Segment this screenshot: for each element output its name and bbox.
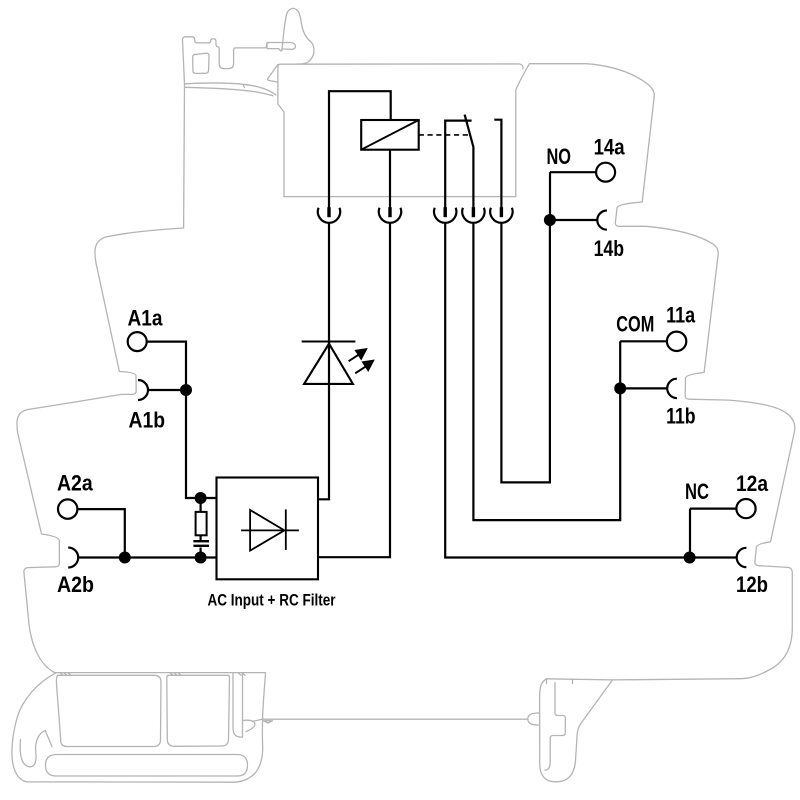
housing tier-1 top edge right segment with seam — [516, 64, 530, 197]
svg-text:AC Input + RC Filter: AC Input + RC Filter — [208, 591, 336, 610]
relay coil K — [361, 120, 419, 150]
svg-text:NC: NC — [685, 479, 709, 504]
wire NC to 12a — [690, 508, 737, 510]
wire COM to 11a — [620, 340, 667, 342]
wire filter box right to LED branch — [318, 223, 329, 500]
wire A1b to junction — [148, 389, 186, 391]
wire capacitor to A2 line — [200, 548, 202, 558]
terminal arc 14b — [597, 211, 607, 230]
terminal arc A2b — [68, 548, 78, 568]
foot pad 1 — [56, 675, 161, 746]
plug 4 — [472, 207, 475, 217]
plug 5 — [500, 207, 503, 217]
black circuit — [77, 91, 736, 557]
wire A2 line — [78, 556, 216, 558]
DIN clip body silhouette — [182, 37, 268, 84]
wire 14b junction to arc — [550, 219, 597, 221]
svg-text:11b: 11b — [666, 403, 696, 428]
switch NO fixed contact — [494, 120, 501, 208]
foot bottom bar — [46, 755, 248, 777]
svg-text:COM: COM — [616, 312, 654, 337]
capacitor C — [193, 541, 209, 546]
wire NO to 14a — [550, 171, 596, 173]
wire NC down — [689, 509, 691, 558]
foot toe claw — [20, 731, 52, 767]
foot hatch ticks — [60, 673, 71, 676]
wire A1a to junction — [147, 342, 186, 390]
svg-text:14a: 14a — [594, 134, 626, 159]
DIN clip slider tab — [267, 43, 295, 51]
housing tier-1 bottom edge — [284, 196, 516, 198]
resistor R — [196, 512, 207, 535]
foot right hook detail — [243, 720, 255, 731]
foot pad 2 — [167, 675, 230, 746]
junction dots — [180, 384, 192, 396]
terminal arc A1b — [138, 380, 148, 400]
AC input + RC filter box — [217, 478, 319, 580]
svg-text:12a: 12a — [736, 471, 769, 496]
svg-text:11a: 11a — [666, 302, 696, 327]
foot top edge — [54, 672, 266, 674]
DIN clip lower arc 2 — [186, 87, 273, 96]
wire plug4 to COM — [473, 223, 620, 520]
wire relay coil bottom — [389, 150, 391, 208]
housing right profile from tier-1 to bottom hook — [530, 64, 795, 782]
svg-text:NO: NO — [547, 144, 572, 169]
wire NO down — [549, 172, 551, 220]
DIN clip wedge — [268, 65, 278, 83]
switch lever — [465, 115, 474, 208]
wire filter box right to plug 2 branch — [318, 223, 390, 558]
foot outer silhouette — [12, 673, 266, 782]
wire resistor to capacitor — [200, 535, 202, 541]
coil-contact dashed link — [419, 134, 468, 136]
svg-text:A1b: A1b — [129, 408, 166, 433]
terminal arc 12b — [737, 548, 747, 567]
LED arrows — [349, 349, 374, 374]
DIN clip lower arc 1 — [185, 83, 276, 95]
wire switch common — [445, 121, 471, 208]
svg-text:14b: 14b — [594, 236, 625, 261]
terminal arc 11b — [667, 379, 677, 398]
DIN clip release finger — [282, 8, 314, 64]
wire COM down — [619, 341, 621, 388]
DIN clip hole — [193, 53, 209, 73]
svg-text:A2b: A2b — [57, 572, 94, 597]
svg-text:A1a: A1a — [128, 305, 164, 330]
plug 1 — [327, 207, 330, 217]
right hook inner steps — [545, 683, 565, 771]
svg-text:A2a: A2a — [57, 471, 93, 496]
wire plug5 to NO — [501, 220, 550, 482]
right hook rail catch blob — [528, 713, 540, 725]
wire A1 junction down to filter box — [186, 390, 217, 498]
wire 11b junction to arc — [620, 387, 667, 389]
foot right channel — [233, 673, 243, 737]
DIN rail top line — [253, 719, 528, 721]
svg-text:12b: 12b — [736, 572, 768, 597]
wire A2a to junction — [77, 509, 124, 557]
terminal circle 14a — [596, 163, 615, 182]
terminal circle A2a — [58, 499, 77, 518]
housing tier-1 relay box left edge and chamfer — [278, 64, 523, 104]
rail wedge — [264, 721, 273, 723]
housing left profile from clip to foot — [17, 84, 185, 672]
plug contacts (pin + socket cup) — [318, 207, 513, 223]
plug 3 — [444, 207, 447, 217]
diode inside filter box — [241, 509, 299, 550]
wire relay coil top feed — [329, 91, 391, 207]
housing bottom edge segment above right hook — [546, 679, 613, 680]
terminal circle A1a — [128, 332, 147, 351]
wire plug3 to NC line — [445, 223, 736, 558]
terminal circle 12a — [736, 499, 755, 518]
terminal circle 11a — [667, 332, 686, 351]
DIN clip tick — [243, 85, 245, 88]
wire resistor branch top — [200, 498, 202, 513]
LED D1 — [302, 342, 356, 384]
plug 2 — [388, 207, 391, 217]
